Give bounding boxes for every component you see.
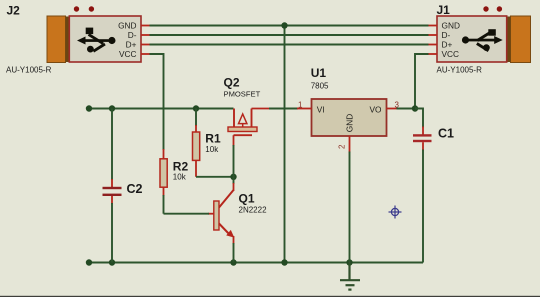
svg-text:R1: R1 [205,132,221,146]
svg-text:10k: 10k [205,145,219,154]
capacitor C2 [103,109,122,263]
svg-text:2: 2 [338,144,347,149]
svg-text:VCC: VCC [442,49,460,59]
transistor Q1 (2N2222) [208,183,234,244]
pin stubs J1 [428,26,437,55]
node R1 top junction [193,105,199,111]
resistor R2 [160,149,167,214]
node GND drop bottom junction [281,259,287,265]
wire Q2 gate down to node [233,145,235,184]
svg-text:D+: D+ [126,40,137,50]
svg-text:R2: R2 [173,160,189,174]
regulator U1 (7805) [312,99,387,136]
svg-text:Q2: Q2 [224,76,240,90]
capacitor C1 [413,109,432,263]
svg-text:D-: D- [128,30,137,40]
node C2 bottom junction [109,259,115,265]
wire U1 GND pin to ground rail [349,152,351,263]
ground rail (bottom horizontal) [89,262,423,264]
svg-text:GND: GND [345,114,355,132]
connector J1 [437,6,531,62]
node U1 GND junction [346,259,352,265]
svg-text:7805: 7805 [311,82,329,91]
svg-text:J2: J2 [7,4,21,18]
resistor R1 [193,109,200,177]
wire VCC from J1 down to VO node [415,54,429,108]
svg-text:AU-Y1005-R: AU-Y1005-R [6,66,52,75]
node R1/gate junction [230,174,236,180]
wire Q1 emitter to ground rail [233,243,235,263]
pin stubs J2 [141,26,150,55]
ground [340,263,360,290]
node GND bus junction [281,22,287,28]
svg-text:C1: C1 [438,127,454,141]
svg-text:PMOSFET: PMOSFET [224,90,261,99]
node VO/VCC/C1 junction [412,105,418,111]
pin 1 stub U1 [297,108,312,110]
wire D+ bus J2-J1 [150,44,429,46]
wire GND bus J2-J1 [150,25,429,27]
svg-text:U1: U1 [311,66,327,80]
node rail bottom left end [86,259,92,265]
pin 3 stub U1 [387,108,398,110]
wire VCC from J2 down to R2 [150,54,164,150]
svg-text:J1: J1 [437,3,451,17]
svg-text:VO: VO [370,104,383,114]
wire D- bus J2-J1 [150,34,429,36]
origin marker [389,206,402,219]
svg-text:D-: D- [442,30,451,40]
svg-text:2N2222: 2N2222 [239,206,268,215]
svg-text:VCC: VCC [119,49,137,59]
svg-text:D+: D+ [442,40,453,50]
svg-text:VI: VI [317,104,325,114]
wire Q2 drain to U1 VI [252,108,299,110]
svg-text:10k: 10k [173,173,187,182]
svg-text:GND: GND [118,21,136,31]
node C2 top junction [109,105,115,111]
svg-text:C2: C2 [127,182,143,196]
pin 2 stub U1 [349,136,351,153]
connector J2 [47,6,141,62]
node Q1 emitter junction [230,259,236,265]
transistor Q2 (PMOSFET) [228,109,257,147]
svg-text:Q1: Q1 [239,192,255,206]
svg-text:AU-Y1005-R: AU-Y1005-R [437,66,483,75]
svg-text:GND: GND [442,21,460,31]
wire VO to node [397,108,416,110]
wire GND vertical drop [284,26,286,263]
wire Q1 base to R2 [164,213,210,215]
vcc rail (top horizontal) [89,108,234,110]
wire R1 bottom to gate node [196,176,234,178]
svg-text:1: 1 [298,100,303,109]
node rail left end [86,105,92,111]
